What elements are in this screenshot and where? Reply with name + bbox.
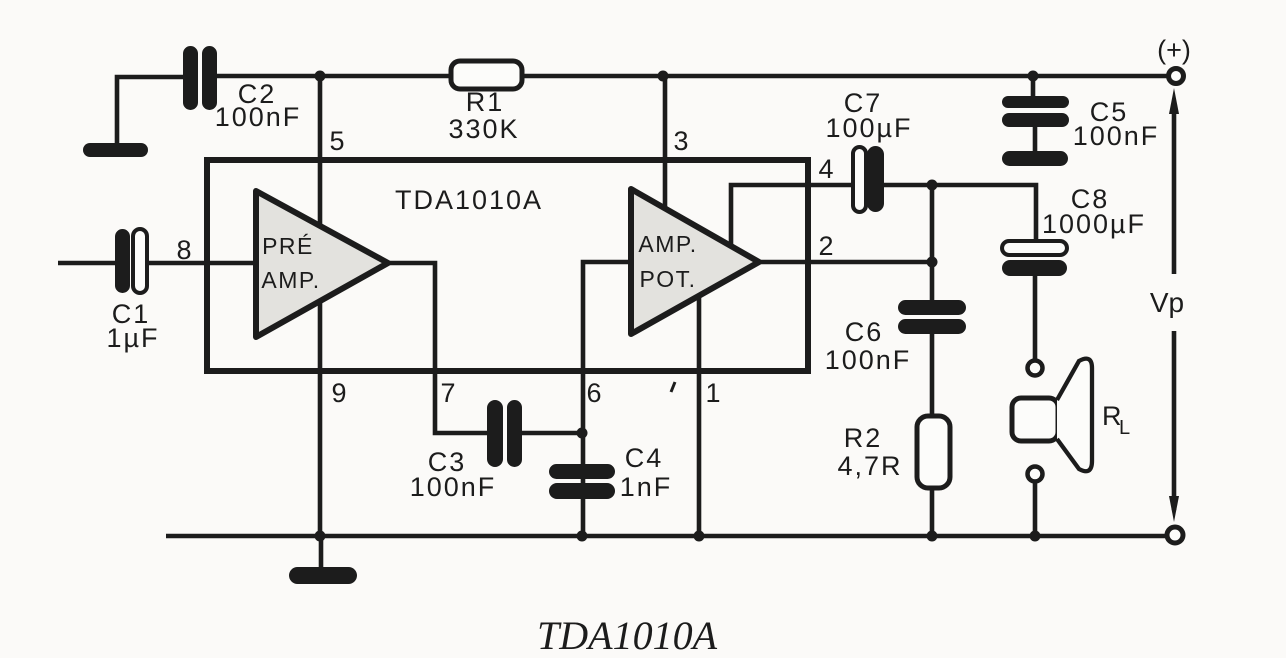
ground bar below C5 — [1002, 151, 1068, 166]
wire bottom ground stub — [319, 536, 324, 568]
node E pin 2 row — [927, 257, 938, 268]
svg-text:4,7R: 4,7R — [837, 451, 902, 481]
svg-text:100nF: 100nF — [825, 345, 912, 375]
capacitor C7 negative plate — [867, 146, 884, 212]
svg-text:(+): (+) — [1157, 35, 1191, 65]
svg-text:L: L — [1119, 417, 1130, 439]
svg-text:AMP.: AMP. — [261, 267, 320, 293]
wire bottom rail — [166, 534, 1165, 539]
node H bottom rail C4 — [577, 531, 588, 542]
terminal (+) circle — [1169, 69, 1184, 84]
svg-text:TDA1010A: TDA1010A — [395, 185, 543, 215]
capacitor C1 positive plate (hollow) — [133, 229, 147, 293]
wire input lead to C1 — [58, 261, 115, 266]
wire pin 3 vertical — [663, 76, 668, 250]
capacitor C8 negative plate — [1002, 260, 1067, 276]
speaker RL top terminal circle — [1028, 361, 1043, 376]
resistor R2 body — [917, 416, 950, 488]
wire C3 to node, pin 6 vertical, to bottom rail — [521, 262, 631, 536]
node B top rail / pin 3 — [658, 71, 669, 82]
wire top rail (+V) — [216, 74, 1167, 79]
node K bottom rail speaker — [1030, 531, 1041, 542]
node F C3/C4 junction — [577, 428, 588, 439]
speaker RL cone — [1057, 359, 1092, 472]
node A top rail / pin 5 — [315, 71, 326, 82]
ground top-left bar — [83, 143, 148, 157]
capacitor C6 plates — [898, 300, 966, 315]
svg-text:100nF: 100nF — [215, 102, 302, 132]
wire R2 to bottom rail — [930, 488, 935, 536]
svg-text:PRÉ: PRÉ — [262, 233, 314, 259]
node J bottom rail R2 — [927, 531, 938, 542]
wire Vp dimension line upper — [1172, 103, 1177, 274]
svg-text:6: 6 — [586, 378, 601, 408]
svg-text:C4: C4 — [625, 443, 664, 473]
op-amp box U1 TDA1010A — [207, 160, 808, 371]
svg-text:9: 9 — [331, 378, 346, 408]
wire speaker to bottom rail — [1033, 483, 1038, 536]
capacitor C3 plates — [487, 400, 503, 467]
svg-text:1: 1 — [705, 378, 720, 408]
op-amp AMP POT triangle — [631, 189, 759, 334]
arrowhead up (Vp) — [1169, 88, 1179, 114]
wire C6 to R2 — [930, 334, 935, 416]
wire pre-amp output to pin 7 and C3 — [388, 263, 487, 433]
capacitor C4 plates — [549, 464, 615, 479]
wire pin 1 vertical — [697, 290, 702, 536]
capacitor C8 positive plate (hollow) — [1002, 241, 1067, 255]
node C top rail / C5 — [1028, 71, 1039, 82]
capacitor C5 plates — [1002, 96, 1069, 108]
wire C7 to node — [884, 183, 932, 188]
svg-text:100µF: 100µF — [825, 113, 912, 143]
stray tick near pin 1 — [671, 382, 675, 392]
wire pin 4 feedback to C7 — [731, 185, 853, 250]
svg-text:Vp: Vp — [1150, 287, 1184, 318]
svg-text:1µF: 1µF — [106, 323, 159, 353]
speaker RL bottom terminal circle — [1028, 467, 1043, 482]
node D pin 4 row — [927, 180, 938, 191]
svg-text:4: 4 — [818, 154, 833, 184]
wire pin 2 output — [759, 260, 932, 265]
wire C8 to speaker — [1033, 276, 1038, 359]
svg-text:8: 8 — [176, 235, 191, 265]
arrowhead down (Vp) — [1169, 496, 1179, 522]
wire pin 5 / pin 9 vertical — [318, 76, 323, 536]
resistor R1 body — [451, 61, 522, 89]
svg-text:5: 5 — [329, 126, 344, 156]
svg-text:100nF: 100nF — [1073, 121, 1160, 151]
svg-text:7: 7 — [440, 378, 455, 408]
wire C1 to pre-amp input (pin 8) — [147, 261, 258, 266]
svg-text:2: 2 — [818, 231, 833, 261]
capacitor C1 negative plate — [115, 229, 130, 293]
svg-text:3: 3 — [673, 126, 688, 156]
wire Vp dimension line lower — [1172, 331, 1177, 510]
capacitor C7 positive plate (hollow) — [853, 147, 866, 212]
wire C2 left lead and drop to ground — [117, 77, 183, 143]
svg-text:R1: R1 — [466, 87, 505, 117]
wire C5 bottom stub to ground bar — [1033, 127, 1038, 152]
terminal bottom-right circle — [1167, 527, 1183, 543]
svg-text:AMP.: AMP. — [638, 231, 697, 257]
svg-text:C6: C6 — [845, 317, 884, 347]
capacitor C2 plates — [183, 46, 198, 110]
svg-text:R2: R2 — [844, 423, 883, 453]
svg-text:100nF: 100nF — [410, 472, 497, 502]
svg-text:330K: 330K — [448, 114, 519, 144]
svg-text:1nF: 1nF — [620, 472, 673, 502]
op-amp PRE AMP triangle — [256, 191, 388, 337]
node I bottom rail pin 1 — [694, 531, 705, 542]
svg-text:POT.: POT. — [639, 266, 696, 292]
svg-text:1000µF: 1000µF — [1042, 209, 1146, 239]
wire pin4 row to C8 — [932, 185, 1036, 241]
wire node column pin4 row to pin2 row to C6 — [930, 185, 935, 300]
node G bottom rail pin 9 — [315, 531, 326, 542]
ground bottom bar — [289, 567, 357, 584]
svg-text:TDA1010A: TDA1010A — [537, 613, 718, 658]
wire C5 top stub — [1031, 76, 1036, 96]
speaker RL body — [1012, 398, 1058, 441]
